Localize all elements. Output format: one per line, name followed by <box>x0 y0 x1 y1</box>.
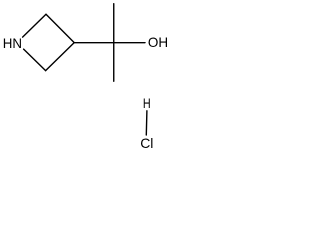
svg-text:H: H <box>143 95 151 111</box>
svg-text:OH: OH <box>148 34 168 50</box>
svg-text:HN: HN <box>3 35 22 51</box>
svg-text:Cl: Cl <box>140 135 153 151</box>
